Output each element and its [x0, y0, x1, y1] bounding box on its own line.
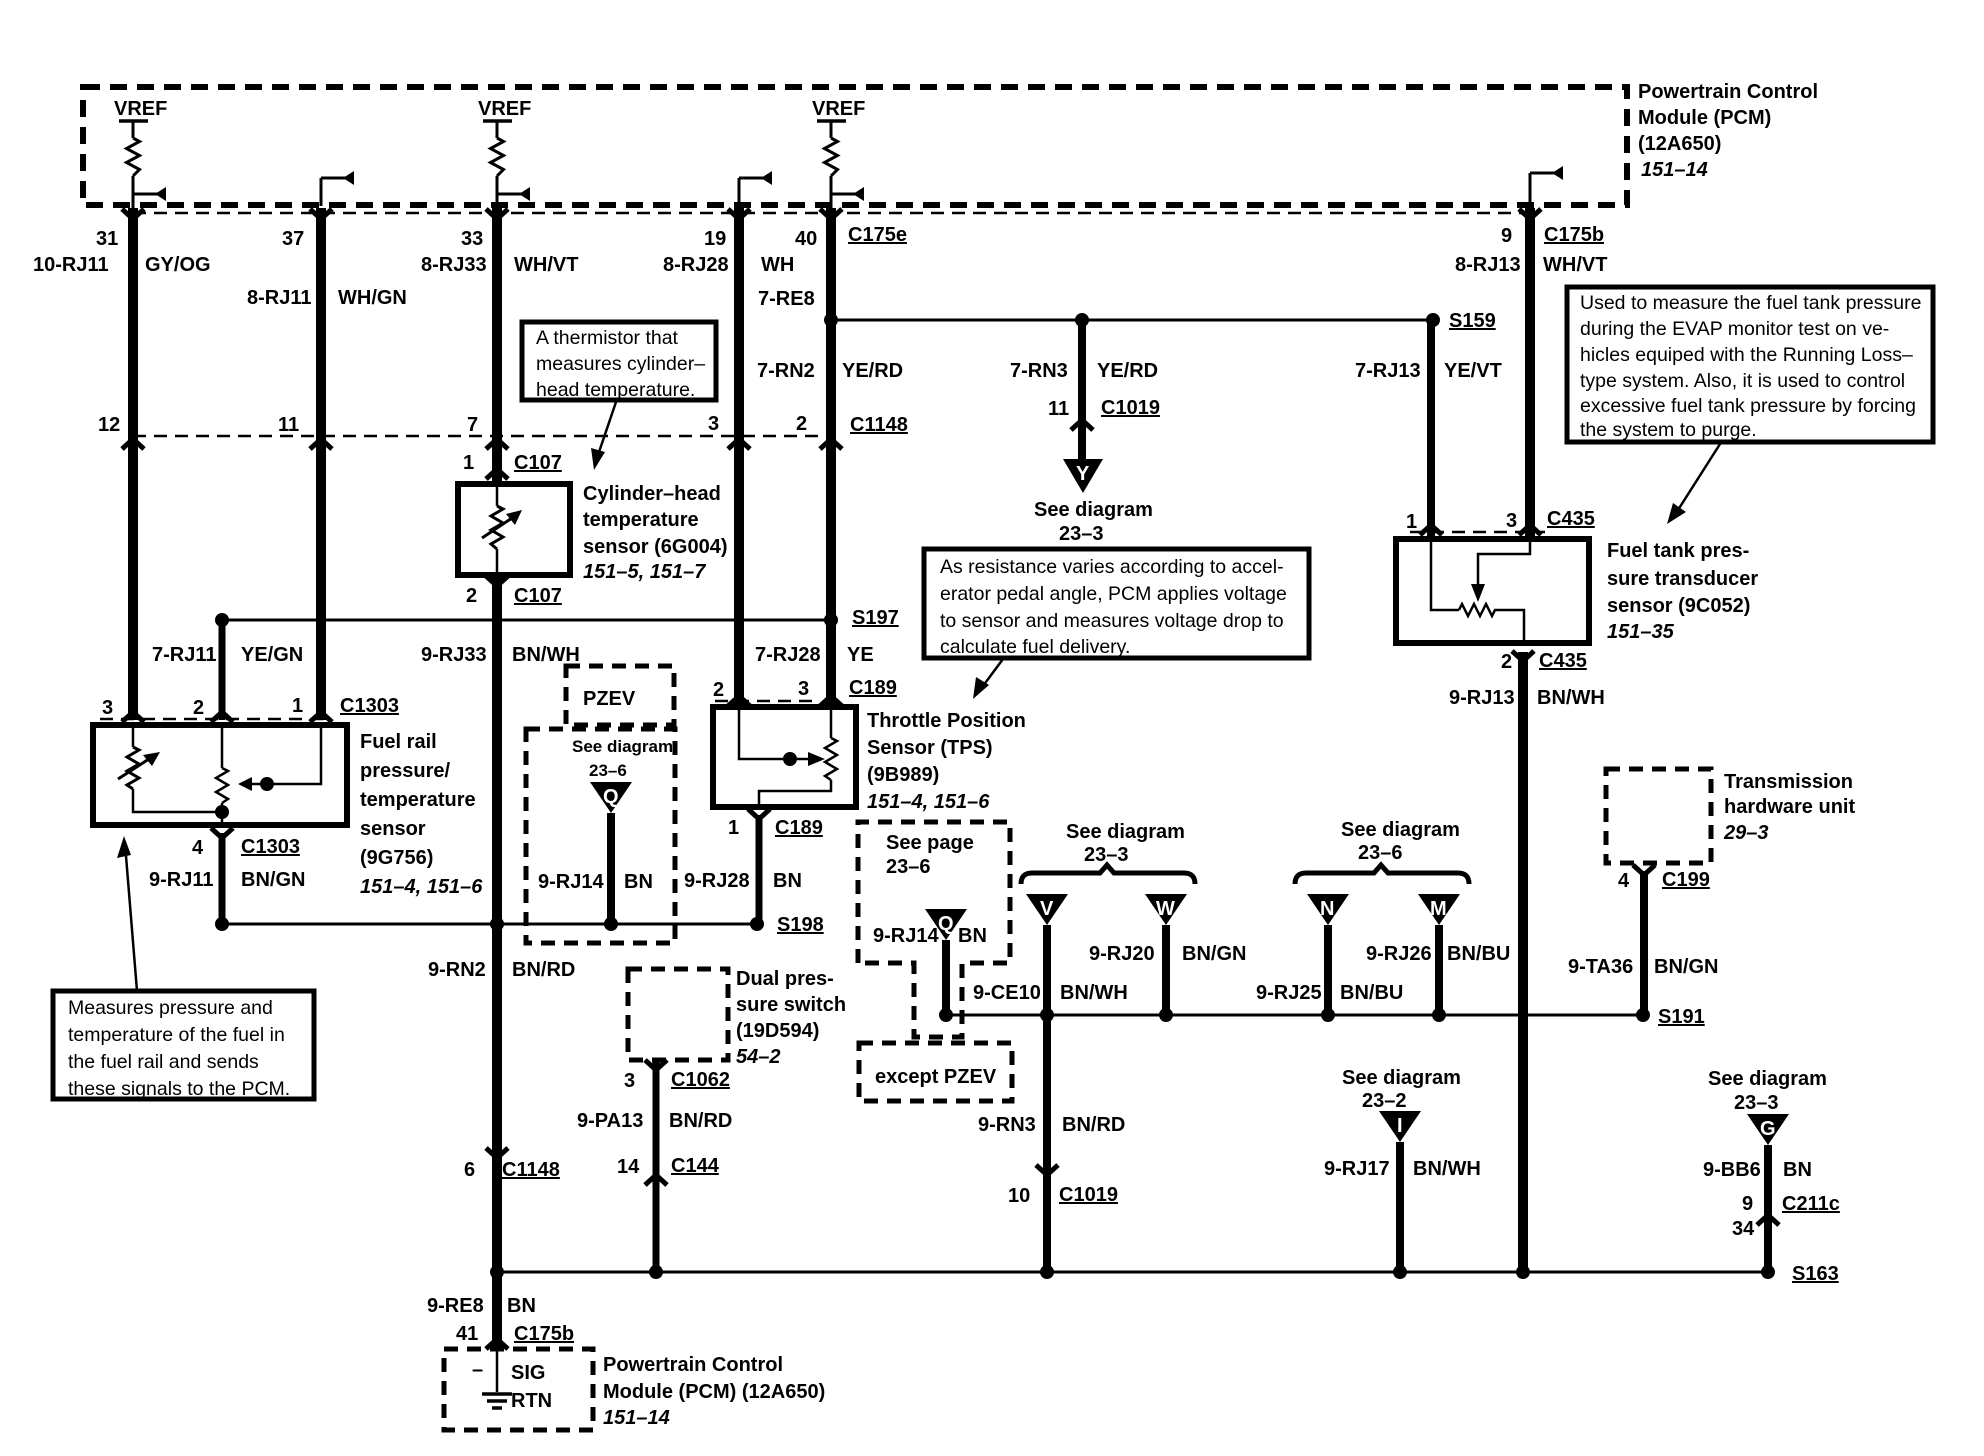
Cylinder-head temperature sensor box: [458, 484, 570, 575]
svg-text:23–2: 23–2: [1362, 1090, 1407, 1112]
VREF node 1: [114, 98, 167, 138]
svg-text:9-RJ26: 9-RJ26: [1366, 943, 1432, 965]
svg-text:9-RJ14: 9-RJ14: [538, 871, 604, 893]
fuel rail wiper arrowhead: [238, 777, 252, 791]
svg-text:C1148: C1148: [502, 1159, 560, 1181]
svg-text:7-RJ11: 7-RJ11: [152, 644, 217, 666]
fuel rail note arrow: [117, 836, 137, 991]
svg-text:23–3: 23–3: [1734, 1092, 1779, 1114]
See page 23-6 dashed box (Q2): [858, 822, 1010, 1037]
Powertrain Control Module bottom dashed box: [444, 1349, 593, 1430]
svg-text:C435: C435: [1547, 508, 1595, 530]
svg-text:C175b: C175b: [514, 1323, 574, 1345]
svg-text:C189: C189: [849, 677, 897, 699]
svg-text:temperature: temperature: [583, 509, 699, 531]
svg-text:sure transducer: sure transducer: [1607, 568, 1758, 590]
svg-text:11: 11: [1048, 398, 1069, 420]
pin 19 chevron: [728, 209, 750, 219]
wire 9-RJ20 BN/GN label: [1089, 943, 1246, 965]
Throttle Position Sensor label: [867, 710, 1026, 813]
svg-text:Y: Y: [1076, 463, 1090, 485]
wire 9-RJ26 BN/BU label: [1366, 943, 1510, 965]
thermistor zigzag (cylinder head): [491, 506, 503, 549]
svg-text:Cylinder–head: Cylinder–head: [583, 483, 721, 505]
svg-text:S159: S159: [1449, 310, 1496, 332]
svg-text:Sensor (TPS): Sensor (TPS): [867, 737, 993, 759]
wire 7-RN3 YE/RD label: [1010, 360, 1158, 382]
wire 9-CE10 BN/WH label: [973, 982, 1128, 1004]
svg-text:23–3: 23–3: [1059, 523, 1104, 545]
svg-text:9-BB6: 9-BB6: [1703, 1159, 1761, 1181]
svg-text:1: 1: [728, 817, 739, 839]
svg-text:2: 2: [466, 585, 477, 607]
C1019 pin 10 chevron: [1036, 1165, 1058, 1175]
wire resistor to pin 40: [830, 176, 833, 208]
svg-text:8-RJ11: 8-RJ11: [247, 287, 312, 309]
svg-text:BN: BN: [507, 1295, 536, 1317]
thermistor lead top: [496, 487, 499, 506]
thermistor note box: [522, 322, 716, 401]
C435 pin 2 chevron: [1512, 651, 1534, 661]
svg-text:except PZEV: except PZEV: [875, 1066, 997, 1088]
ground symbol: [482, 1394, 512, 1408]
splice dot S197 on W5: [824, 613, 838, 627]
C189 pin 2 chevron: [728, 696, 750, 706]
C435 pin 1 chevron: [1420, 525, 1442, 535]
svg-text:W: W: [1156, 898, 1175, 920]
svg-text:YE/VT: YE/VT: [1444, 360, 1502, 382]
svg-text:Used to measure the fuel tank: Used to measure the fuel tank pressure: [1580, 292, 1921, 314]
svg-text:See diagram: See diagram: [1066, 821, 1185, 843]
svg-text:Module (PCM) (12A650): Module (PCM) (12A650): [603, 1381, 825, 1403]
thermistor lead bottom: [496, 549, 499, 572]
fuel rail thermistor zigzag: [127, 747, 139, 789]
svg-text:BN: BN: [773, 870, 802, 892]
svg-text:41: 41: [456, 1323, 478, 1345]
connector C435 dashed line: [1410, 531, 1545, 534]
svg-text:10: 10: [1008, 1185, 1030, 1207]
wire resistor to pin 33: [496, 176, 499, 208]
wire 9-PA13 BN/RD label: [577, 1110, 732, 1132]
svg-text:(19D594): (19D594): [736, 1020, 819, 1042]
fuel tank resistor zigzag: [1459, 604, 1497, 616]
svg-text:VREF: VREF: [478, 98, 531, 120]
resistor in PCM (VREF 1): [127, 138, 140, 176]
svg-text:3: 3: [798, 678, 809, 700]
splice dot S198: [750, 917, 764, 931]
svg-text:C144: C144: [671, 1155, 720, 1177]
svg-text:1: 1: [1406, 511, 1417, 533]
junction dot M at S191: [1432, 1008, 1446, 1022]
svg-text:PZEV: PZEV: [583, 688, 636, 710]
wire 8-RJ13 WH/VT label: [1455, 254, 1607, 276]
svg-text:9-TA36: 9-TA36: [1568, 956, 1633, 978]
junction dot C144 wire at bus: [649, 1265, 663, 1279]
splice S159 line: [831, 319, 1433, 322]
svg-text:19: 19: [704, 228, 726, 250]
C1303 pin 1 chevron: [310, 712, 332, 722]
junction dot W3 at bus: [490, 1265, 504, 1279]
wire 9-RJ13 fuel tank to ground bus: [1518, 652, 1528, 1272]
wire 9-RJ11 BN/GN label: [149, 869, 305, 891]
wire 7-RN2 YE/RD label: [757, 360, 903, 382]
svg-text:Powertrain Control: Powertrain Control: [603, 1354, 783, 1376]
svg-text:4: 4: [1618, 870, 1630, 892]
svg-text:BN/RD: BN/RD: [512, 959, 575, 981]
pin 31 chevron: [122, 209, 144, 219]
svg-text:YE/GN: YE/GN: [241, 644, 303, 666]
wire 9-RJ25 BN/BU label: [1256, 982, 1403, 1004]
svg-text:7-RE8: 7-RE8: [758, 288, 815, 310]
off-page connector M triangle: [1418, 894, 1460, 925]
connector C1303 dashed line: [100, 718, 330, 721]
svg-text:WH/GN: WH/GN: [338, 287, 407, 309]
svg-text:9-RJ28: 9-RJ28: [684, 870, 750, 892]
svg-text:7-RN3: 7-RN3: [1010, 360, 1068, 382]
svg-text:type system. Also, it is used: type system. Also, it is used to control: [1580, 370, 1905, 392]
svg-text:See diagram: See diagram: [1708, 1068, 1827, 1090]
svg-text:Q: Q: [938, 913, 954, 935]
see diagram 23-3 bracket (V W): [1021, 821, 1195, 884]
svg-text:29–3: 29–3: [1723, 822, 1769, 844]
Dual pressure switch label: [736, 968, 846, 1068]
C144 pin 14 chevron: [645, 1175, 667, 1185]
resistor in PCM (VREF 2): [491, 138, 504, 176]
fuel rail potentiometer zigzag: [216, 768, 228, 803]
svg-text:YE/RD: YE/RD: [842, 360, 903, 382]
svg-text:151–35: 151–35: [1607, 621, 1675, 643]
wire 9-RJ14 BN label: [538, 871, 653, 893]
svg-text:2: 2: [193, 697, 204, 719]
svg-text:C107: C107: [514, 585, 562, 607]
wire 9-RJ13 BN/WH label: [1449, 687, 1605, 709]
VREF node 2: [478, 98, 531, 138]
off-page connector Q2 triangle: [925, 909, 967, 940]
C1148 pin 2 chevron: [820, 439, 842, 449]
splice S191 line: [946, 1014, 1643, 1017]
svg-text:9-PA13: 9-PA13: [577, 1110, 643, 1132]
C189 pin 1 chevron: [748, 809, 770, 819]
svg-text:11: 11: [278, 414, 299, 436]
svg-text:9-RJ17: 9-RJ17: [1324, 1158, 1390, 1180]
fuel rail wiper dot: [260, 777, 274, 791]
svg-text:10-RJ11: 10-RJ11: [33, 254, 109, 276]
C1062 pin 3 chevron: [645, 1060, 667, 1070]
VREF node 3: [812, 98, 865, 138]
svg-text:See diagram: See diagram: [572, 737, 673, 756]
svg-text:Module (PCM): Module (PCM): [1638, 107, 1771, 129]
svg-text:BN/BU: BN/BU: [1340, 982, 1403, 1004]
svg-text:34: 34: [1732, 1218, 1755, 1240]
wire 9-RJ14 BN label (Q2): [873, 925, 987, 947]
wire V to S191: [1043, 925, 1051, 1015]
svg-text:8-RJ33: 8-RJ33: [421, 254, 487, 276]
wire 7-RJ13 S159 to fuel tank sensor: [1427, 320, 1435, 537]
svg-text:151–4, 151–6: 151–4, 151–6: [360, 876, 483, 898]
C211c chevron: [1757, 1215, 1779, 1225]
svg-text:YE/RD: YE/RD: [1097, 360, 1158, 382]
svg-text:N: N: [1320, 898, 1334, 920]
C189 pin 3 chevron: [820, 696, 842, 706]
svg-text:BN/WH: BN/WH: [1060, 982, 1128, 1004]
fuel rail note box: [53, 991, 314, 1100]
C199 pin 4 chevron: [1633, 865, 1655, 875]
off-page connector V triangle: [1026, 894, 1068, 925]
svg-text:WH: WH: [761, 254, 794, 276]
tap arrow at pin 40: [831, 187, 864, 201]
junction dot 9-RN3 at bus: [1040, 1265, 1054, 1279]
junction dot YE/GN top: [215, 613, 229, 627]
wire 9-RJ28 TPS pin1 to S198: [756, 815, 763, 924]
wire W1 pin31 to fuel rail sensor: [128, 208, 138, 720]
svg-text:9: 9: [1501, 225, 1512, 247]
internal stub pin 9: [1530, 166, 1563, 206]
svg-text:3: 3: [102, 697, 113, 719]
wire W5 pin40 to TPS: [826, 208, 836, 704]
svg-text:Powertrain Control: Powertrain Control: [1638, 81, 1818, 103]
C1303 pin 4 chevron: [211, 828, 233, 838]
svg-text:2: 2: [713, 679, 724, 701]
svg-text:GY/OG: GY/OG: [145, 254, 211, 276]
svg-text:See diagram: See diagram: [1342, 1067, 1461, 1089]
except PZEV dashed box: [859, 1043, 1012, 1101]
svg-text:VREF: VREF: [812, 98, 865, 120]
svg-text:BN: BN: [1783, 1159, 1812, 1181]
svg-text:erator pedal angle, PCM applie: erator pedal angle, PCM applies voltage: [940, 583, 1287, 605]
C1303 pin 3 chevron: [122, 712, 144, 722]
junction dot 9-RJ17 at bus: [1393, 1265, 1407, 1279]
C175b pin 41 chevron: [486, 1339, 508, 1349]
svg-text:14: 14: [617, 1156, 640, 1178]
internal stub pin 19: [739, 171, 772, 206]
svg-text:(9G756): (9G756): [360, 847, 433, 869]
svg-text:S198: S198: [777, 914, 824, 936]
svg-text:8-RJ13: 8-RJ13: [1455, 254, 1521, 276]
fuel rail thermistor lead: [132, 728, 135, 747]
svg-text:BN/BU: BN/BU: [1447, 943, 1510, 965]
wire 9-RN3 BN/RD label: [978, 1114, 1125, 1136]
svg-text:9-RN2: 9-RN2: [428, 959, 486, 981]
svg-text:3: 3: [708, 413, 719, 435]
fuel rail wiper wire from pin 1: [247, 728, 321, 784]
svg-text:54–2: 54–2: [736, 1046, 781, 1068]
svg-text:Throttle Position: Throttle Position: [867, 710, 1026, 732]
TPS pin2 lead: [739, 710, 788, 759]
svg-text:sensor (6G004): sensor (6G004): [583, 536, 728, 558]
fuel tank wiper arrow: [1471, 560, 1485, 602]
svg-text:7-RJ28: 7-RJ28: [755, 644, 821, 666]
off-page connector I triangle: [1379, 1111, 1421, 1142]
wire 9-TA36 to S191: [1640, 871, 1648, 1015]
junction dot W3 at S198: [490, 917, 504, 931]
splice dot S163: [1761, 1265, 1775, 1279]
C1148 pin 12 chevron: [122, 439, 144, 449]
svg-text:Transmission: Transmission: [1724, 771, 1853, 793]
svg-text:C1019: C1019: [1059, 1184, 1118, 1206]
TPS note box: [924, 549, 1309, 658]
svg-text:BN/WH: BN/WH: [1537, 687, 1605, 709]
svg-text:9-RN3: 9-RN3: [978, 1114, 1036, 1136]
svg-text:9-CE10: 9-CE10: [973, 982, 1041, 1004]
wire 10-RJ11 GY/OG label: [33, 254, 211, 276]
Fuel rail pressure/temperature sensor box: [93, 725, 347, 825]
svg-text:C1303: C1303: [241, 836, 300, 858]
svg-text:C1062: C1062: [671, 1069, 730, 1091]
svg-text:2: 2: [796, 413, 807, 435]
svg-text:the system to purge.: the system to purge.: [1580, 419, 1757, 441]
TPS pot bottom lead to pin 1: [759, 780, 831, 804]
svg-text:sensor (9C052): sensor (9C052): [1607, 595, 1750, 617]
wire W3 pin33 to cylinder head sensor: [492, 208, 502, 481]
svg-text:9-RE8: 9-RE8: [427, 1295, 484, 1317]
wire 9-RJ17 BN/WH label: [1324, 1158, 1481, 1180]
svg-text:calculate fuel delivery.: calculate fuel delivery.: [940, 636, 1130, 658]
svg-text:VREF: VREF: [114, 98, 167, 120]
wire YE/GN to fuel rail sensor: [219, 620, 226, 720]
C1148 pin 11 chevron: [310, 439, 332, 449]
svg-text:151–5, 151–7: 151–5, 151–7: [583, 561, 706, 583]
wire 9-BB6 G to S163: [1764, 1145, 1772, 1272]
svg-text:(9B989): (9B989): [867, 764, 939, 786]
wire 9-RN2 BN/RD label: [428, 959, 575, 981]
wire 7-RJ28 YE label: [755, 644, 874, 666]
svg-text:8-RJ28: 8-RJ28: [663, 254, 729, 276]
thermistor note arrow: [591, 402, 616, 470]
C1148 pin 6 chevron: [486, 1148, 508, 1158]
wire 9-PA13 to ground bus: [653, 1062, 660, 1272]
see diagram 23-6 bracket (N M): [1295, 819, 1469, 884]
svg-text:C175b: C175b: [1544, 224, 1604, 246]
svg-text:9-RJ13: 9-RJ13: [1449, 687, 1515, 709]
junction dot 7-RN3 tap: [1075, 313, 1089, 327]
fuel tank pin1 lead: [1431, 542, 1459, 610]
junction dot 9-RJ11 at S198: [215, 917, 229, 931]
fuel rail thermistor bottom lead: [133, 789, 222, 812]
svg-text:151–14: 151–14: [1641, 159, 1708, 181]
C1148 pin 7 chevron: [486, 439, 508, 449]
svg-text:Fuel tank pres-: Fuel tank pres-: [1607, 540, 1749, 562]
svg-text:BN: BN: [958, 925, 987, 947]
svg-text:BN: BN: [624, 871, 653, 893]
svg-text:6: 6: [464, 1159, 475, 1181]
svg-text:C175e: C175e: [848, 224, 907, 246]
splice S197 line: [222, 619, 831, 622]
TPS wiper dot: [783, 752, 797, 766]
see page 23-6 text: [886, 832, 974, 878]
svg-text:V: V: [1040, 898, 1054, 920]
svg-text:C1303: C1303: [340, 695, 399, 717]
svg-text:BN/RD: BN/RD: [669, 1110, 732, 1132]
wire 9-RE8 BN label: [427, 1295, 536, 1317]
junction dot S159 on W5: [824, 313, 838, 327]
PCM bottom label: [603, 1354, 825, 1429]
fuel tank wiper output lead: [1497, 610, 1524, 640]
tap arrow at pin 31: [133, 187, 166, 201]
wire resistor to pin 31: [132, 176, 135, 208]
pin 40 chevron: [820, 209, 842, 219]
svg-text:23–6: 23–6: [589, 761, 627, 780]
wire W4 pin19 to TPS: [734, 208, 744, 704]
Transmission hardware unit label: [1723, 771, 1855, 844]
svg-text:4: 4: [192, 837, 204, 859]
wire M to S191: [1435, 925, 1443, 1015]
PZEV see diagram dashed box: [526, 729, 675, 943]
svg-text:See page: See page: [886, 832, 974, 854]
svg-text:A thermistor that: A thermistor that: [536, 327, 679, 349]
svg-text:M: M: [1430, 898, 1447, 920]
svg-text:Measures pressure and: Measures pressure and: [68, 997, 273, 1019]
svg-text:Q: Q: [603, 786, 619, 808]
svg-text:sensor: sensor: [360, 818, 426, 840]
svg-text:Fuel rail: Fuel rail: [360, 731, 437, 753]
junction dot W at S191: [1159, 1008, 1173, 1022]
connector C175e/C175b thin dashed line: [133, 212, 1530, 215]
svg-text:I: I: [1397, 1115, 1403, 1137]
svg-text:during the EVAP monitor test o: during the EVAP monitor test on ve-: [1580, 318, 1889, 340]
fuel tank note box: [1567, 287, 1933, 442]
svg-text:3: 3: [1506, 510, 1517, 532]
wire 9-RJ11 pin4 to S198: [219, 833, 226, 924]
svg-text:C211c: C211c: [1782, 1193, 1840, 1215]
svg-text:–: –: [472, 1359, 483, 1381]
svg-text:1: 1: [292, 695, 303, 717]
svg-text:9-RJ25: 9-RJ25: [1256, 982, 1322, 1004]
see diagram 23-2 (I): [1342, 1067, 1461, 1112]
svg-text:C199: C199: [1662, 869, 1710, 891]
wire W3 below cylinder head sensor: [492, 578, 502, 1349]
fuel rail potentiometer top lead: [221, 728, 224, 768]
svg-text:As resistance varies according: As resistance varies according to accel-: [940, 556, 1284, 578]
svg-text:33: 33: [461, 228, 483, 250]
junction dot V at S191: [1040, 1008, 1054, 1022]
junction dot Q1 wire at S198: [604, 917, 618, 931]
thermistor arrow (cylinder head): [482, 510, 522, 538]
wire 9-RJ14 Q2 to S191: [942, 940, 950, 1015]
pin 37 chevron: [310, 209, 332, 219]
svg-text:C435: C435: [1539, 650, 1587, 672]
svg-text:9-RJ14: 9-RJ14: [873, 925, 939, 947]
see diagram 23-3 (Y): [1034, 499, 1153, 545]
C1303 pin 2 chevron: [211, 712, 233, 722]
fuel tank pin3 lead: [1478, 542, 1530, 560]
wire W to S191: [1162, 925, 1170, 1015]
C1019 pin 11 chevron: [1071, 420, 1093, 430]
svg-text:these signals to the PCM.: these signals to the PCM.: [68, 1078, 290, 1100]
svg-text:hicles equiped with the Runnin: hicles equiped with the Running Loss–: [1580, 344, 1913, 366]
svg-text:7-RN2: 7-RN2: [757, 360, 815, 382]
svg-text:S191: S191: [1658, 1006, 1705, 1028]
svg-text:hardware unit: hardware unit: [1724, 796, 1855, 818]
wire 9-RJ14 Q1 to S198: [607, 813, 615, 924]
svg-text:WH/VT: WH/VT: [514, 254, 578, 276]
junction dot N at S191: [1321, 1008, 1335, 1022]
svg-text:9-RJ20: 9-RJ20: [1089, 943, 1155, 965]
Fuel tank sensor label: [1607, 540, 1758, 643]
Transmission hardware unit dashed box: [1606, 769, 1711, 863]
svg-text:(12A650): (12A650): [1638, 133, 1721, 155]
svg-text:7: 7: [467, 414, 478, 436]
TPS pot top lead: [830, 710, 833, 738]
wire W6 pin9 to fuel tank sensor: [1525, 208, 1535, 537]
svg-text:7-RJ13: 7-RJ13: [1355, 360, 1421, 382]
PCM top label text: [1638, 81, 1818, 181]
TPS wiper arrow: [790, 752, 825, 766]
wire 9-RJ28 BN label: [684, 870, 802, 892]
PCM bottom SIG RTN wire: [496, 1349, 499, 1392]
svg-text:BN/WH: BN/WH: [1413, 1158, 1481, 1180]
svg-text:BN/GN: BN/GN: [1654, 956, 1718, 978]
wire 9-RN3 V to ground bus: [1043, 1015, 1051, 1272]
